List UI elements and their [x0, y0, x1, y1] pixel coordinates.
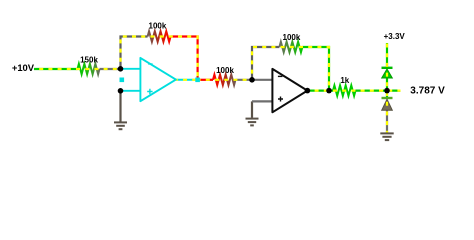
wire feedback 2 left (gray) — [252, 47, 279, 80]
op-amp U1 center handle — [120, 78, 125, 83]
svg-text:+3.3V: +3.3V — [384, 32, 406, 41]
wire feedback left (gray, 0V) — [121, 37, 148, 70]
resistor R3 100k — [213, 75, 236, 85]
wire D2 to ground — [386, 110, 388, 132]
current dashes over U1 output lead — [176, 79, 198, 81]
wire R1 to op-amp U1 inverting input — [100, 68, 121, 70]
ground 2 (below U2 + input) — [246, 119, 259, 126]
diode D1 triangle — [382, 69, 393, 78]
op-amp U2 input leads (gray) — [252, 80, 272, 102]
svg-text:150k: 150k — [80, 55, 98, 64]
op-amp U1 output lead — [176, 79, 198, 81]
diode D2 cathode bar — [382, 97, 393, 99]
junction dot U1 non-inverting input — [118, 88, 124, 94]
resistor R5 1k — [333, 85, 356, 95]
op-amp U1 output terminal handle — [195, 78, 200, 83]
op-amp U2 triangle — [272, 69, 307, 112]
resistor R4 100k feedback 2 — [279, 42, 302, 52]
wire U1 output to R3 — [198, 79, 213, 81]
diode D1 (green, to +3.3V) cathode bar — [382, 67, 393, 69]
junction dot output node — [384, 88, 390, 94]
op-amp U1 minus sign — [148, 63, 152, 65]
wire U2 + input elbow to ground — [251, 101, 253, 117]
junction dot U1 inverting input — [118, 66, 124, 72]
wire input +10V to R1 — [34, 68, 78, 70]
resistor R2 100k feedback 1 — [148, 31, 171, 41]
op-amp U2 minus sign — [278, 75, 283, 77]
wire feedback 2 right (green) — [302, 47, 329, 91]
junction dot U2 inverting input — [249, 77, 255, 83]
op-amp U1 plus sign — [147, 89, 152, 94]
wire U2 output to junction — [307, 89, 333, 91]
wire U1 + input to ground — [119, 91, 121, 122]
op-amp U2 plus sign — [278, 97, 283, 102]
current dashes (yellow) — [34, 37, 401, 91]
svg-text:100k: 100k — [149, 22, 167, 31]
junction dot U2 output — [305, 88, 311, 94]
wire +3.3V supply down to diode D1 — [386, 43, 388, 68]
ground 1 (below U1 + input) — [114, 122, 127, 129]
svg-text:100k: 100k — [283, 33, 301, 42]
svg-text:3.787 V: 3.787 V — [410, 85, 445, 96]
current dashes over output clamp column — [386, 44, 388, 133]
wire R3 to U2 inverting input — [236, 79, 253, 81]
diode D2 triangle (gray) — [382, 99, 393, 110]
svg-text:100k: 100k — [216, 66, 234, 75]
op-amp U1 triangle — [140, 58, 176, 101]
wire D1 to node to D2 — [386, 78, 388, 98]
op-amp U1 (selected, cyan) input leads — [121, 69, 141, 91]
wire R5 to node out — [356, 89, 401, 91]
ground 3 (below D2) — [380, 133, 393, 140]
svg-text:1k: 1k — [340, 76, 349, 85]
svg-text:+10V: +10V — [12, 62, 35, 73]
resistor R1 150k — [78, 64, 100, 74]
wire feedback right (red, negative) — [171, 37, 198, 80]
junction dot feedback 2 output — [326, 88, 332, 94]
